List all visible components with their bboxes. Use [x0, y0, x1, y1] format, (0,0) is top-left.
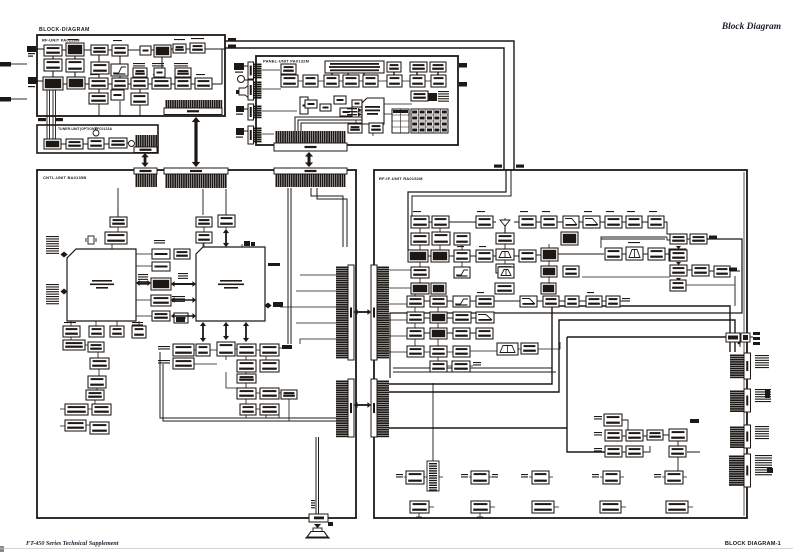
rfif r1 c12 — [648, 216, 664, 228]
connector J1002 RF bottom — [164, 100, 222, 115]
rfif r6 c8 — [586, 296, 602, 307]
panel block lamp — [430, 62, 446, 72]
CNTL pin labels lower — [46, 284, 59, 304]
CNTL left chain b1 — [90, 358, 109, 369]
panel mid2 — [320, 104, 331, 111]
svg-text:CNTL-UNIT BA0135B: CNTL-UNIT BA0135B — [43, 175, 86, 180]
panel disp dark — [428, 93, 437, 101]
rfif right b2 — [690, 234, 707, 244]
panel mid4 — [340, 108, 352, 116]
RF block RX AMP — [195, 78, 212, 89]
RF block TUNER SW — [44, 45, 62, 56]
rfif r1 c1 — [411, 216, 429, 228]
bottom a4 — [603, 471, 620, 484]
connector right J6 ant — [730, 353, 751, 379]
audio r2 c4 — [237, 360, 256, 372]
CNTL-UNIT outline — [37, 170, 356, 518]
bottom a1 — [406, 471, 424, 484]
rfif r9 c1 — [407, 346, 424, 357]
panel row2 b3 — [324, 75, 339, 87]
rfif row9 chain — [424, 342, 560, 366]
RF block REG — [111, 90, 124, 100]
CNTL cpu1 pin stack — [138, 274, 148, 285]
rfif mcf filter — [626, 247, 643, 260]
J4005 label — [516, 165, 524, 168]
svg-text:PANEL-UNIT PA0132M: PANEL-UNIT PA0132M — [263, 59, 310, 64]
long wire L3 — [389, 337, 741, 452]
rfif r7 c1 — [407, 312, 424, 323]
CNTL reset ic — [110, 217, 127, 227]
CNTL node diamond 1 — [61, 252, 67, 257]
CNTL mid io6 — [174, 313, 188, 323]
RF fan lbl — [191, 38, 204, 39]
CNTL left pair1b — [92, 404, 111, 415]
panel row2 b1 — [281, 75, 298, 87]
RF-IF-UNIT outline — [374, 170, 747, 518]
connector P1 cpu side A — [336, 265, 354, 360]
rfif row1 labels g — [627, 211, 635, 212]
rfif mcf label — [628, 242, 640, 243]
RF block ANT SW — [91, 45, 108, 55]
cluster out lbl — [690, 419, 699, 423]
CNTL mid lbl 25-320 — [154, 240, 165, 244]
rfif stack arrows — [676, 246, 681, 281]
connector panel J3 — [248, 80, 262, 100]
diagram title — [39, 27, 90, 33]
bottom g1 lbl — [396, 474, 403, 478]
bus arrow J1002 to CNTL — [192, 117, 200, 167]
rfif drive amp — [561, 232, 578, 245]
panel row2 b5 — [363, 75, 378, 87]
CNTL mid io2 — [152, 262, 170, 271]
panel jack3 — [236, 106, 244, 115]
arrow interconnect A — [354, 309, 371, 315]
RF block LPF-B — [66, 59, 84, 72]
bottom links a — [404, 476, 687, 478]
bottom g2 lbl — [461, 474, 468, 478]
J label right a — [709, 236, 717, 239]
panel key matrix table — [411, 109, 448, 133]
audio r1 c3 — [217, 342, 235, 356]
audio small lbl1 — [282, 345, 292, 349]
right J6 labels — [755, 355, 769, 368]
RF vertical links — [53, 55, 162, 93]
CNTL led pair — [244, 241, 255, 246]
rfif r7 c4 — [476, 312, 494, 323]
speaker feed wires — [316, 437, 319, 514]
J4003 label — [228, 45, 236, 48]
long wire L0 — [393, 368, 556, 372]
rfif r7 c3 — [453, 312, 471, 323]
RF signal chain row3 — [63, 49, 222, 84]
CNTL mid io3 — [151, 278, 171, 290]
TUNER-UNIT outline — [37, 125, 158, 153]
CNTL eeprom — [196, 232, 212, 243]
panel bottom2 — [369, 123, 383, 133]
rfif row1 labels d — [542, 211, 550, 212]
bottom b3 — [532, 501, 554, 513]
CNTL left chain b3 — [86, 390, 104, 400]
rfif row1 labels a — [413, 211, 421, 212]
audio r5 c5 — [260, 404, 279, 415]
rf right top box — [726, 332, 760, 345]
long wire L2 — [389, 320, 735, 392]
cluster b4 — [669, 429, 687, 441]
rf right junction — [738, 342, 741, 345]
panel block ENC — [281, 64, 296, 74]
CNTL cpu U1 main — [67, 249, 136, 321]
wires RF to TUNER a — [47, 90, 50, 139]
panel block KEYS LED MATRIX — [325, 61, 384, 73]
svg-text:TUNER-UNIT(OPTION) FC0123A: TUNER-UNIT(OPTION) FC0123A — [58, 127, 112, 131]
bottom b2 — [471, 501, 490, 513]
right J9 labels — [755, 455, 772, 475]
rfif r3 c4 — [476, 250, 493, 262]
J label right b — [729, 268, 737, 271]
RF tiny lbl1 — [133, 63, 145, 67]
rf right 2V box — [741, 333, 750, 342]
antenna jack M1 — [27, 46, 36, 57]
rfif right d1 — [670, 280, 686, 291]
J4002 label — [228, 38, 236, 41]
rfif row1 chain — [429, 221, 648, 223]
rfif row1 labels b — [477, 211, 485, 212]
rfif r6 c6 — [543, 296, 559, 307]
bottom g3 lbl — [521, 474, 528, 478]
panel mid5 — [352, 100, 362, 107]
rfif r1 c8 — [563, 216, 579, 228]
audio drop wires — [246, 399, 289, 421]
CNTL clock label — [176, 317, 185, 322]
rfif r3 c2 — [431, 250, 449, 262]
cluster links — [622, 420, 700, 471]
antenna wire in A — [408, 170, 506, 250]
rfif r8 c3 — [453, 328, 470, 339]
cluster labels r1 — [594, 416, 602, 420]
TUNER transistor — [93, 130, 99, 136]
cpu1 top links — [112, 207, 118, 249]
rfif row7 chain — [424, 317, 476, 319]
connector J1003 — [164, 168, 228, 188]
panel row1-row2 links — [287, 72, 438, 75]
rfif r6 out lbl — [622, 298, 630, 302]
rfif r6 c5 — [520, 296, 537, 307]
rfif row6 chain — [424, 300, 622, 302]
audio r1 c1 — [173, 344, 194, 356]
CNTL xtal1 — [86, 236, 96, 244]
arrow io3-cpu2 — [171, 281, 196, 287]
rfif r10 c2 — [452, 361, 470, 372]
CNTL diamond right — [265, 302, 283, 308]
svg-text:BLOCK-DIAGRAM: BLOCK-DIAGRAM — [39, 27, 90, 33]
panel speaker symbol — [236, 84, 250, 99]
panel mid3 — [334, 96, 346, 104]
rfif r8 c2 — [430, 328, 447, 339]
rfif r1 c7 — [541, 216, 557, 228]
rfif rx mix — [541, 266, 557, 277]
rfif r3 c7 — [541, 248, 558, 261]
long wire L1 — [389, 306, 730, 384]
cluster c2 — [626, 446, 643, 457]
rfif r5 c1 — [411, 283, 429, 294]
audio r1 c5 — [260, 344, 279, 356]
rfif r7 c2 — [430, 312, 447, 323]
rfif row3 chain — [428, 254, 669, 256]
RF block BPF — [152, 78, 171, 89]
panel row2 b8 — [431, 75, 446, 87]
rfif r3 c6 — [519, 250, 536, 262]
audio r1 c2 — [196, 344, 210, 356]
rfif r1 c9 — [583, 216, 600, 228]
rfif noise amp — [495, 283, 514, 294]
rfif row1 labels c — [520, 211, 528, 212]
panel row2 chain — [298, 80, 431, 82]
cluster b1 — [605, 430, 622, 441]
bottom g4 lbl — [592, 474, 599, 478]
rfif r6 c4 — [476, 296, 494, 307]
rfif row1 labels e — [584, 211, 592, 212]
connector right J9 — [729, 454, 751, 487]
CNTL under cpu lbls — [132, 322, 143, 326]
rfif r6 c9 — [606, 296, 620, 307]
wire jack1 to tuner box — [36, 48, 44, 50]
RF block LPF-A — [44, 59, 62, 71]
TUNER relay box — [44, 139, 61, 149]
panel jack4 — [236, 128, 244, 138]
rfif r6 labels a — [431, 292, 438, 293]
RF tiny lbl3 — [174, 63, 188, 67]
connector panel J4 — [248, 104, 262, 120]
CNTL cpu U2 sub — [196, 247, 265, 321]
rfif r9 c5 — [521, 343, 538, 354]
rfif r6 c1 — [407, 296, 424, 307]
rfif right c2 — [692, 265, 709, 276]
audio r1 c4 — [237, 344, 256, 356]
bottom gnds — [416, 507, 693, 517]
rfif r10 c1 — [430, 361, 447, 372]
arrow mem to cpu2 — [223, 229, 229, 247]
antenna wire in B — [412, 170, 511, 216]
speaker jack J1008 — [309, 514, 328, 522]
RF-UNIT outline — [37, 35, 225, 116]
rfif r10 out lbl — [473, 362, 481, 366]
CNTL level shift — [174, 249, 190, 259]
RF row3 lbl a — [90, 74, 99, 75]
antenna jack M2 — [28, 77, 37, 87]
cluster c1 — [605, 446, 622, 457]
RF block SWR DET — [91, 62, 109, 74]
comb pairA left feeds — [280, 275, 336, 344]
J label under RF box — [38, 118, 63, 121]
CNTL sdram — [218, 215, 235, 227]
rfif ant sw — [496, 233, 514, 244]
rfif row1 labels h — [649, 211, 657, 212]
panel row2 b7 — [410, 75, 425, 87]
rfif loop wire — [390, 239, 742, 378]
RF row3 lbl b — [153, 74, 162, 75]
panel row2 b4 — [343, 75, 359, 87]
mic symbol — [238, 76, 245, 83]
RF block meter pair — [173, 44, 186, 53]
rfif r3 c10 — [605, 248, 622, 260]
rfif right c1 — [670, 265, 687, 276]
audio data labels — [158, 346, 170, 350]
speaker wire lbl — [311, 500, 315, 508]
wire RF out upper — [225, 41, 514, 170]
CNTL node diamond 2 — [61, 289, 67, 294]
rfif col links — [415, 228, 462, 361]
panel block meter — [410, 62, 427, 72]
RF block DET — [89, 93, 108, 104]
audio r2 c1 — [173, 358, 194, 369]
arrow io5-cpu2 — [171, 313, 196, 319]
CNTL left pair2a — [65, 420, 86, 431]
arrow tuner to CNTL — [141, 153, 148, 167]
CNTL pin labels upper — [46, 236, 59, 254]
CNTL below4 — [132, 326, 146, 338]
cluster b3 — [647, 430, 663, 440]
audio r3 c4 — [237, 374, 256, 383]
rfif att pad — [496, 264, 514, 273]
wire RF out lower — [225, 48, 504, 170]
svg-text:FT-450 Series Technical Supple: FT-450 Series Technical Supplement — [26, 541, 119, 547]
CNTL left chain b2 — [88, 376, 106, 388]
rfif r6 labels c — [544, 292, 551, 293]
cluster c4 — [669, 446, 686, 457]
footer doc name — [26, 541, 119, 547]
CNTL mid io4 — [151, 295, 171, 306]
CNTL mid io5 — [152, 311, 170, 321]
panel cpu — [362, 98, 384, 124]
RF block DRIVE — [67, 77, 85, 89]
cpu1 bottom links — [71, 321, 139, 326]
cluster tx agc — [604, 414, 622, 426]
cluster b2 — [626, 430, 643, 441]
TUNER motor label — [129, 141, 135, 147]
cluster labels r3 — [594, 448, 602, 452]
bottom b4 — [600, 501, 621, 513]
rfif r8 c1 — [407, 328, 424, 339]
CNTL tx rx label — [268, 263, 280, 266]
footer rule — [0, 548, 793, 550]
rfif r9 c2 — [430, 346, 447, 357]
RF block BIAS — [140, 46, 151, 55]
arrow cpu2 db — [223, 322, 229, 340]
rfif r2 c1 — [411, 233, 429, 245]
rfif r9 c3 — [453, 346, 470, 357]
bus comb2 down — [118, 188, 226, 217]
rfif r3 labels a — [457, 246, 464, 247]
audio links — [194, 348, 282, 409]
wire comb g1 feed — [432, 383, 434, 461]
rfif r8 c4 — [476, 328, 493, 339]
cpu1 right links — [136, 254, 152, 316]
rfif mid links — [505, 216, 569, 283]
RF row1 lbl a — [68, 39, 78, 40]
rfif r6 labels d — [587, 292, 594, 293]
CNTL io3 right lbl — [178, 273, 188, 279]
rfif agc line — [582, 276, 670, 278]
rfif r4 c8 — [563, 266, 579, 277]
wires RF to TUNER b — [53, 90, 56, 139]
bottom b5 — [666, 501, 688, 513]
page title Block Diagram — [721, 22, 781, 32]
svg-text:RF-IF-UNIT RA0152M: RF-IF-UNIT RA0152M — [379, 176, 423, 181]
bottom comb g1 — [427, 461, 439, 491]
CNTL left pair1a — [65, 404, 88, 415]
rfif r5 c2 — [431, 283, 446, 294]
rfif comb feeds — [389, 270, 411, 352]
rfif right links — [687, 270, 740, 306]
right J7 labels — [755, 389, 771, 402]
panel cpu bus — [295, 117, 362, 131]
CNTL io4 right hatch — [172, 296, 185, 302]
CNTL left pair2b — [90, 422, 109, 434]
CNTL below2 — [89, 326, 104, 337]
connector J3001 tuner — [134, 135, 157, 153]
rfif right chain r1 — [664, 222, 690, 239]
TUNER cpu box — [109, 138, 127, 148]
page edge coax 2 — [0, 97, 27, 102]
audio r4 c5 — [260, 388, 279, 399]
bottom a3 — [532, 471, 549, 484]
rfif row1 labels f — [606, 211, 614, 212]
RF block TX SW — [112, 45, 128, 56]
CNTL regulator — [105, 232, 127, 244]
RF block MIXER AMP — [131, 78, 148, 89]
RF block ANT RELAY — [66, 43, 84, 56]
RF block tiny pair3 — [175, 68, 191, 77]
arrow cpu2 dc — [243, 322, 249, 342]
panel vr — [300, 97, 308, 114]
connector J1004 — [274, 168, 347, 187]
connector right J7 — [730, 389, 751, 412]
bus comb3 down double — [288, 188, 291, 344]
antenna symbol — [500, 218, 510, 233]
CNTL below3 — [110, 326, 124, 337]
rfif r1 c2 — [432, 216, 449, 228]
audio loop wires — [160, 352, 336, 421]
rfif 2nd mix — [669, 249, 686, 261]
CNTL left chain a2 — [88, 342, 104, 352]
page edge coax 1 — [0, 62, 27, 67]
RF block fan pair — [190, 43, 205, 53]
RF row3 lbl c — [196, 74, 205, 75]
CNTL mid io1 — [152, 249, 170, 259]
panel row2 b2 — [303, 75, 318, 87]
speaker SP — [305, 522, 333, 538]
RF block tiny pair1 — [133, 68, 147, 77]
arrow io4-cpu2 — [171, 297, 196, 303]
rfif r3 c1 — [408, 250, 428, 262]
RF block TX AMP — [112, 78, 128, 89]
rfif xf filter — [498, 267, 514, 278]
panel cpu wires — [262, 70, 412, 136]
connector J5002 rf side B — [371, 379, 389, 437]
rfif r6 c3 — [453, 296, 470, 307]
panel right jack b — [459, 82, 467, 87]
audio r2 c5 — [260, 360, 279, 372]
panel block dial — [387, 62, 401, 72]
RF block PRE DRIVE — [89, 78, 108, 89]
TUNER sensor box — [88, 138, 104, 149]
audio data labels2 — [158, 360, 170, 364]
cpu2 top links — [203, 215, 242, 247]
panel cpu in-arrows — [347, 108, 362, 117]
connector panel J5 — [248, 126, 262, 144]
arrow interconnect B — [354, 402, 371, 408]
rfif r4 c1 — [411, 267, 429, 278]
